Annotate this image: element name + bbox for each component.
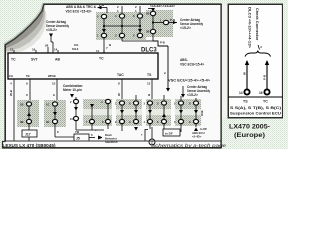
right block chain bbox=[148, 8, 153, 10]
wire bbox=[151, 127, 153, 139]
wire bbox=[104, 25, 140, 27]
arrow down bbox=[138, 29, 142, 33]
connector circle (181,103) bbox=[179, 101, 184, 105]
inner frame bottom line bbox=[4, 140, 221, 142]
faint scan haze on page bbox=[2, 4, 222, 148]
main white page with folded top-left corner bbox=[3, 4, 222, 148]
svg-text:Suspension Control ECU: Suspension Control ECU bbox=[230, 112, 282, 116]
svg-text:14: 14 bbox=[239, 91, 243, 95]
wire bbox=[44, 4, 222, 6]
arrow up bbox=[162, 113, 166, 117]
page curl shadow cast on the page bbox=[5, 4, 47, 55]
junction dot bbox=[152, 21, 154, 23]
connector circle (122,35.5) bbox=[119, 33, 124, 37]
connector circle (55,104) bbox=[53, 102, 58, 106]
bracket and circled number bbox=[145, 130, 148, 142]
box bbox=[163, 129, 180, 136]
ECU box line bbox=[228, 96, 283, 98]
wires with up arrows bbox=[246, 61, 248, 89]
junction block J/B left (shaded) bbox=[96, 12, 146, 40]
arrowhead bbox=[97, 6, 102, 10]
connector circle (92,121.5) bbox=[90, 119, 95, 123]
wire bbox=[228, 4, 230, 118]
box bbox=[22, 130, 37, 137]
connector circle (150,121.5) bbox=[148, 119, 153, 123]
wire bbox=[122, 40, 153, 42]
wire bbox=[220, 4, 222, 148]
wire bbox=[91, 124, 93, 130]
arrow down bbox=[120, 110, 124, 114]
wire bbox=[121, 38, 123, 41]
wire bbox=[75, 97, 77, 101]
svg-text:Schematics by a-tech page: Schematics by a-tech page bbox=[151, 143, 227, 148]
arrow down bbox=[90, 104, 94, 108]
crisp page borders overdraw bbox=[3, 4, 283, 148]
block 2 bbox=[44, 100, 66, 127]
wire bbox=[29, 82, 31, 101]
arrow down bbox=[134, 127, 138, 131]
connector circle (122,16) bbox=[119, 14, 124, 18]
wire bbox=[28, 107, 30, 119]
block 4 wide with light band bbox=[116, 99, 142, 126]
box bbox=[116, 109, 142, 115]
wire bbox=[28, 137, 30, 141]
box bbox=[83, 109, 112, 115]
connector circle bbox=[264, 89, 269, 94]
wires down from DLC3 bbox=[13, 82, 15, 141]
block 5 bbox=[146, 99, 171, 126]
junction dot bbox=[139, 25, 141, 27]
wire bbox=[180, 124, 182, 132]
wire bbox=[51, 41, 53, 43]
wire bbox=[121, 124, 123, 131]
connector circle (108,121.5) bbox=[106, 119, 111, 123]
tiny pin labels on band circles bbox=[70, 100, 191, 124]
bottom pins bbox=[13, 79, 15, 82]
pale gap between the two pages bbox=[222, 5, 228, 118]
wire bbox=[56, 82, 58, 101]
top pins bbox=[13, 50, 15, 53]
arrowhead bbox=[265, 60, 269, 65]
connector circle (29,104) bbox=[27, 102, 32, 106]
middle bus wire bbox=[103, 19, 105, 33]
wire bbox=[56, 79, 58, 82]
wire P-B arrow to text bbox=[99, 7, 107, 9]
wire bbox=[182, 86, 184, 94]
wire bbox=[5, 45, 7, 142]
arrow down bbox=[181, 94, 185, 98]
wire bbox=[281, 4, 283, 118]
wire bbox=[180, 106, 182, 119]
connector circle (153,13.5) bbox=[150, 11, 155, 15]
wire bbox=[258, 45, 260, 50]
arrow down bbox=[166, 88, 170, 92]
wire bbox=[135, 106, 137, 119]
connector circle (150,103) bbox=[148, 101, 153, 105]
wire bbox=[167, 46, 169, 88]
connector circle (55,121.5) bbox=[53, 119, 58, 123]
svg-text:TC: TC bbox=[263, 100, 268, 104]
arrow up bbox=[27, 112, 31, 116]
wire bbox=[152, 34, 154, 41]
wire bbox=[103, 50, 105, 53]
arrow down bbox=[53, 112, 57, 116]
inside bottom labels bbox=[9, 74, 56, 78]
connector circle (140,16) bbox=[137, 14, 142, 18]
wire bbox=[180, 96, 182, 100]
wire bbox=[107, 124, 109, 129]
svg-text:(Europe): (Europe) bbox=[234, 132, 265, 139]
connector circle (181,121.5) bbox=[179, 119, 184, 123]
fold cut edge bbox=[5, 4, 44, 45]
wire bbox=[121, 106, 123, 119]
wire bbox=[195, 124, 197, 127]
box bbox=[175, 109, 201, 115]
wire bbox=[75, 104, 77, 116]
wire bbox=[57, 50, 59, 53]
wire bbox=[163, 106, 165, 119]
wire bbox=[52, 42, 54, 53]
wire bbox=[121, 19, 123, 33]
arrow down bbox=[70, 94, 74, 98]
block 1 bbox=[17, 100, 39, 127]
wire bbox=[195, 98, 197, 100]
right white panel bbox=[228, 4, 283, 118]
wire bbox=[121, 79, 123, 82]
arrow down bbox=[134, 110, 138, 114]
wire bbox=[54, 107, 56, 119]
wire bbox=[169, 22, 177, 24]
junction dot bbox=[121, 25, 123, 27]
wire bbox=[121, 82, 123, 101]
svg-text:P-B: P-B bbox=[263, 74, 267, 80]
svg-text:DLC3 <4-10>+<4-13>: DLC3 <4-10>+<4-13> bbox=[248, 7, 252, 48]
connector circle (29,121.5) bbox=[27, 119, 32, 123]
wire bbox=[135, 95, 137, 100]
svg-text:LX470 2005-: LX470 2005- bbox=[229, 124, 270, 131]
bottom circles bbox=[101, 33, 106, 37]
connector circle (196,121.5) bbox=[194, 119, 199, 123]
wire bbox=[35, 50, 37, 53]
box bbox=[74, 134, 89, 141]
wires below cluster bbox=[103, 38, 105, 53]
arrowhead bbox=[98, 136, 103, 140]
wire bbox=[151, 79, 153, 82]
wire bend bbox=[153, 41, 168, 46]
arrows into bottom circles bbox=[102, 29, 106, 33]
wire bbox=[228, 4, 283, 6]
connector circle (122,121.5) bbox=[120, 119, 125, 123]
wire bbox=[106, 8, 108, 14]
box bbox=[146, 109, 171, 115]
block 6 bbox=[175, 99, 201, 126]
curl shade bbox=[5, 12, 47, 55]
connector circle (196,103) bbox=[194, 101, 199, 105]
group bbox=[97, 12, 162, 38]
top circles of left block bbox=[101, 14, 106, 18]
wire bbox=[50, 36, 52, 42]
brace bbox=[245, 51, 271, 57]
svg-text:Check Connector: Check Connector bbox=[255, 8, 260, 41]
connector circle (164,103) bbox=[162, 101, 167, 105]
arrowhead bbox=[173, 21, 177, 24]
connector circle (108,101.5) bbox=[106, 99, 111, 103]
wire bbox=[54, 124, 56, 137]
pin stubs above cluster bbox=[121, 6, 123, 13]
wires below band bbox=[28, 124, 30, 130]
connector circle (153,31.5) bbox=[150, 29, 155, 33]
svg-text:S S(A), S T(B), S B(C): S S(A), S T(B), S B(C) bbox=[230, 106, 281, 110]
svg-text:TS: TS bbox=[243, 100, 248, 104]
box bbox=[102, 132, 138, 147]
arrow down bbox=[194, 110, 198, 114]
svg-text:LEXUS LX 470 (SB0045): LEXUS LX 470 (SB0045) bbox=[3, 143, 57, 148]
wire bbox=[55, 136, 74, 138]
wire bbox=[89, 137, 95, 139]
arrowhead bbox=[245, 60, 249, 65]
arrow down bbox=[74, 107, 78, 111]
wire bbox=[152, 9, 154, 12]
curl shade bbox=[5, 4, 45, 49]
wire bbox=[149, 124, 151, 129]
wire bbox=[139, 6, 141, 13]
wire bbox=[163, 124, 165, 129]
connector circle (166,22.5) bbox=[163, 20, 168, 24]
connector circle (136,103) bbox=[134, 101, 139, 105]
wire bbox=[139, 19, 141, 33]
wire bbox=[3, 147, 222, 149]
wire bbox=[228, 117, 283, 119]
box bbox=[8, 53, 158, 79]
wire bbox=[151, 82, 153, 101]
svg-text:16: 16 bbox=[259, 91, 263, 95]
wire bbox=[76, 129, 104, 131]
connector circle bbox=[244, 89, 249, 94]
branch circle with P-B arrow to right bbox=[153, 22, 163, 24]
wire bbox=[195, 106, 197, 119]
arrow down bbox=[148, 110, 152, 114]
arrow down bbox=[179, 110, 183, 114]
arrow down bbox=[151, 8, 155, 12]
page background texture bbox=[0, 0, 288, 149]
junction block J/B right (shaded) bbox=[146, 10, 173, 37]
connector circle (140,35.5) bbox=[137, 33, 142, 37]
connector circle (136,121.5) bbox=[134, 119, 139, 123]
connector circle (122,103) bbox=[120, 101, 125, 105]
connector circle (164,121.5) bbox=[162, 119, 167, 123]
wire bbox=[107, 104, 109, 119]
darkened green just outside fold edge bbox=[4, 3, 43, 44]
wire bbox=[266, 61, 268, 89]
block 3 wide with light band bbox=[83, 99, 112, 126]
wire bbox=[152, 16, 154, 29]
bare chain at 76 bbox=[74, 99, 79, 103]
arrow up bbox=[194, 127, 198, 131]
wire bbox=[29, 79, 31, 82]
junction dot bbox=[103, 25, 105, 27]
wire bbox=[91, 104, 93, 119]
connector circle (76,118.5) bbox=[74, 116, 79, 120]
arrow down bbox=[49, 34, 53, 38]
wire bbox=[149, 106, 151, 119]
svg-text:W: W bbox=[243, 72, 247, 75]
curl shade bbox=[5, 9, 46, 52]
wire bbox=[47, 47, 49, 53]
wire bbox=[75, 121, 77, 130]
wire bbox=[163, 95, 165, 100]
